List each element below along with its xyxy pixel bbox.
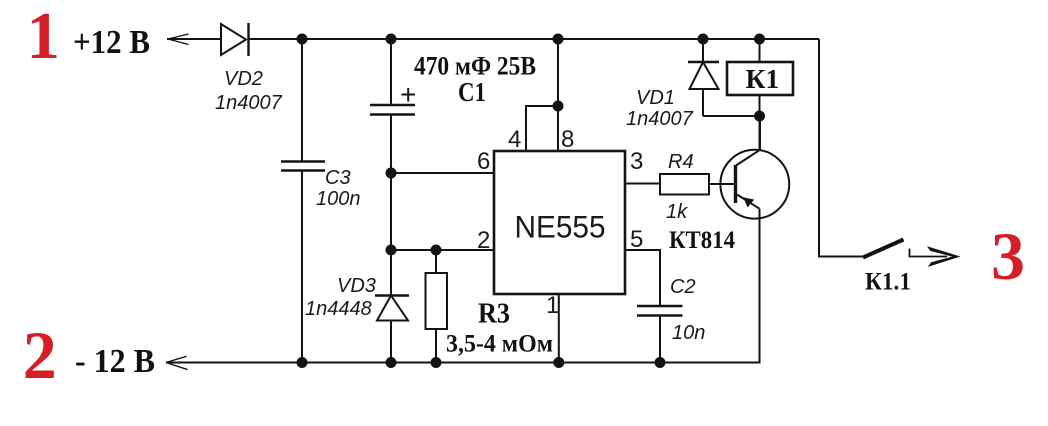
svg-text:3: 3 — [991, 218, 1025, 294]
wire top rail left segment — [167, 38, 221, 40]
diode VD3 — [375, 296, 409, 321]
svg-text:+12 В: +12 В — [73, 24, 150, 61]
node dot pin8 top rail — [553, 34, 564, 45]
svg-text:NE555: NE555 — [515, 209, 606, 245]
capacitor C1 polarity plus — [402, 88, 416, 102]
pin 5 wire — [625, 250, 660, 306]
resistor R3 — [426, 273, 448, 329]
wire pin 2 — [391, 249, 494, 251]
node dot C3 to bottom rail — [297, 357, 308, 368]
node pin2 junction — [386, 245, 397, 256]
svg-text:R3: R3 — [478, 299, 510, 330]
svg-text:1: 1 — [27, 0, 61, 73]
svg-text:- 12 В: - 12 В — [75, 343, 155, 380]
op-amp U1 NE555 body — [494, 151, 625, 294]
svg-text:VD3: VD3 — [337, 275, 376, 297]
wire pin 6 — [391, 172, 494, 174]
resistor R4 — [660, 174, 709, 195]
wire C1 to pin6 node — [390, 115, 392, 174]
node dot top of C3 branch — [297, 34, 308, 45]
svg-text:C3: C3 — [325, 167, 351, 189]
svg-text:5: 5 — [630, 226, 643, 253]
svg-text:1n4007: 1n4007 — [626, 108, 694, 130]
relay K1 coil — [727, 62, 793, 95]
capacitor C3 — [281, 162, 325, 171]
wire transistor base lead — [709, 183, 736, 185]
arrow into node -12V — [166, 356, 188, 369]
diode VD1 — [688, 39, 719, 116]
svg-text:2: 2 — [477, 227, 490, 254]
node dot pin4/pin8 junction — [553, 101, 564, 112]
svg-text:3,5-4 мОм: 3,5-4 мОм — [446, 331, 553, 358]
svg-text:КТ814: КТ814 — [669, 227, 735, 254]
svg-text:2: 2 — [23, 317, 57, 393]
wire C3 branch upper — [301, 39, 303, 162]
svg-text:4: 4 — [508, 126, 521, 153]
diode VD2 — [221, 23, 249, 56]
wire relay bottom lead — [759, 95, 761, 150]
svg-text:470 мФ 25В: 470 мФ 25В — [414, 51, 536, 81]
switch fixed contact — [910, 249, 948, 257]
svg-text:C2: C2 — [670, 276, 696, 298]
wire R3 lower lead — [435, 329, 437, 363]
svg-text:1k: 1k — [666, 201, 688, 223]
svg-text:100n: 100n — [316, 188, 361, 210]
svg-text:1n4448: 1n4448 — [305, 298, 372, 320]
pin 1 wire — [558, 294, 560, 363]
pin 3 wire — [625, 183, 660, 185]
wire relay top lead — [759, 39, 761, 62]
switch K1.1 blade — [863, 240, 904, 258]
svg-text:VD2: VD2 — [224, 68, 263, 90]
svg-text:К1: К1 — [746, 63, 780, 94]
pin 4 wire — [526, 106, 557, 151]
node dot relay/VD1/collector junction — [754, 111, 765, 122]
node pin6 junction — [386, 168, 397, 179]
wire pin6 node to pin2 node — [390, 173, 392, 250]
wire collector up — [759, 116, 761, 151]
wire VD3 upper — [390, 250, 392, 296]
svg-text:10n: 10n — [672, 322, 705, 344]
svg-text:8: 8 — [561, 126, 574, 153]
transistor Q1 KT814 — [720, 150, 789, 219]
pin 8 wire — [557, 39, 559, 151]
wire R3 upper lead — [435, 250, 437, 273]
node dot R3 top — [431, 245, 442, 256]
svg-text:3: 3 — [630, 148, 643, 175]
arrow into node +12V — [168, 34, 189, 45]
wire C1 branch upper — [390, 39, 392, 105]
svg-text:1n4007: 1n4007 — [215, 92, 283, 114]
wire VD3 lower — [390, 321, 392, 363]
wire top rail main segment — [249, 38, 820, 40]
wire C3 branch lower — [301, 171, 303, 363]
node dot R3 to bottom rail — [431, 357, 442, 368]
node dot VD3 to bottom rail — [386, 357, 397, 368]
node dot VD1 top rail — [698, 34, 709, 45]
svg-text:С1: С1 — [458, 77, 486, 107]
wire C2 lower lead — [659, 316, 661, 363]
arrow out terminal 3 — [927, 246, 960, 267]
capacitor C1 — [370, 105, 415, 115]
svg-text:6: 6 — [477, 148, 490, 175]
svg-text:VD1: VD1 — [636, 87, 675, 109]
node dot pin1 bottom rail — [553, 357, 564, 368]
svg-text:R4: R4 — [668, 151, 694, 173]
node dot C2 bottom rail — [655, 357, 666, 368]
svg-text:К1.1: К1.1 — [865, 267, 911, 296]
wire VD1 to relay bottom — [703, 115, 760, 117]
wire switch feed from top rail — [819, 39, 864, 257]
wire emitter down — [166, 209, 760, 363]
svg-text:1: 1 — [546, 292, 559, 319]
capacitor C2 — [637, 306, 683, 316]
node dot top of C1 branch — [386, 34, 397, 45]
node dot relay top rail — [754, 34, 765, 45]
